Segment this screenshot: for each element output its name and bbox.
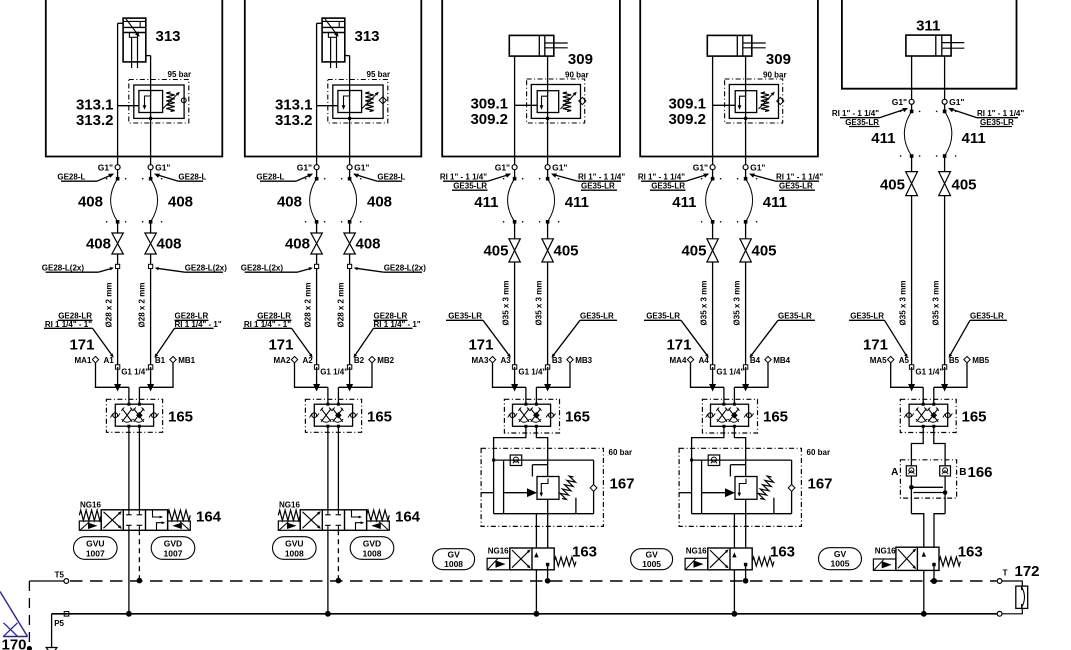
svg-text:163: 163 [770, 544, 795, 561]
fitting square right (col 1) [149, 264, 153, 268]
svg-text:165: 165 [565, 409, 590, 426]
svg-text:RI 1 1/4" - 1": RI 1 1/4" - 1" [374, 320, 421, 329]
svg-text:Ø28 x 2 mm: Ø28 x 2 mm [105, 283, 114, 328]
hose 411 left (col 3) [513, 177, 517, 181]
svg-text:GVD: GVD [363, 538, 381, 548]
tag oval GVU 1007 (col 1) [74, 537, 118, 560]
svg-text:313.1: 313.1 [76, 97, 114, 114]
svg-text:90 bar: 90 bar [763, 71, 787, 80]
svg-text:408: 408 [157, 236, 182, 253]
svg-text:60 bar: 60 bar [609, 448, 633, 457]
wire 163 to T line (col 4) [745, 566, 747, 581]
port square right (col 3) [545, 365, 549, 369]
solenoid right of 164 (col 2) [367, 521, 390, 530]
frame box column 3 [442, 0, 620, 157]
wire valve to fitting left (col 2) [316, 254, 318, 367]
svg-text:A1: A1 [104, 356, 115, 365]
wire 163 to P line col5 [923, 570, 925, 613]
svg-text:GE35-LR: GE35-LR [580, 312, 614, 321]
svg-text:RI 1" - 1 1/4": RI 1" - 1 1/4" [776, 172, 823, 181]
svg-text:GE35-LR: GE35-LR [845, 118, 879, 127]
svg-text:167: 167 [610, 476, 635, 493]
svg-text:Ø28 x 2 mm: Ø28 x 2 mm [138, 283, 147, 328]
svg-text:1005: 1005 [642, 559, 661, 569]
port square right (col 1) [148, 365, 152, 369]
pipe left (col 4) [712, 262, 714, 367]
svg-text:164: 164 [196, 509, 222, 526]
spring left of 164 (col 2) [278, 510, 300, 520]
tag oval GVD 1007 (col 1) [151, 537, 195, 560]
svg-text:B1: B1 [155, 356, 166, 365]
svg-text:171: 171 [666, 337, 691, 354]
svg-text:GVU: GVU [285, 538, 303, 548]
wire cylinder right port (col 3) [547, 56, 549, 165]
wire relief branch (col 2) [317, 105, 338, 107]
svg-text:A4: A4 [699, 356, 710, 365]
svg-text:RI 1" - 1 1/4": RI 1" - 1 1/4" [440, 172, 487, 181]
shutoff valve 405 left (col 4) [707, 239, 718, 251]
svg-text:95 bar: 95 bar [168, 70, 192, 79]
svg-text:GE28-L: GE28-L [178, 172, 206, 181]
junction dot on P line (col 1) [126, 611, 132, 617]
junction arrow right (col 3) [544, 384, 551, 392]
wire into valve 165 (col 4) [723, 387, 725, 404]
svg-text:Ø35 x 3 mm: Ø35 x 3 mm [733, 281, 742, 326]
wire 165 to valve 164 right (col 2) [337, 426, 339, 510]
cooler symbol 170 (blue) [0, 592, 28, 637]
svg-text:NG16: NG16 [488, 547, 509, 556]
wire main to junction left (col 3) [514, 367, 516, 387]
pipe left (col 3) [514, 262, 516, 367]
wire valve to fitting left (col 1) [117, 254, 119, 367]
svg-text:A3: A3 [501, 356, 512, 365]
svg-text:1008: 1008 [363, 548, 382, 558]
shutoff valve 405 left (col 3) [509, 239, 520, 251]
wire MA3 stub (col 3) [493, 363, 526, 388]
wire MA1 stub (col 1) [96, 363, 129, 388]
port G1 inch left (col 2) [314, 165, 319, 170]
directional valve 164 (col 2) [300, 510, 366, 531]
wire 163 to T line (col 3) [547, 566, 549, 581]
frame box column 5 [842, 0, 1017, 89]
svg-text:G1": G1" [495, 163, 510, 173]
svg-text:MB4: MB4 [773, 356, 790, 365]
svg-text:408: 408 [168, 194, 193, 211]
svg-text:Ø35 x 3 mm: Ø35 x 3 mm [502, 281, 511, 326]
junction arrow right col5 [941, 384, 948, 392]
junction arrow left col5 [908, 384, 915, 392]
wire MB5 stub [934, 363, 967, 388]
port G1 inch left (col 4) [710, 165, 715, 170]
junction dot on T line col5 [931, 578, 937, 584]
svg-text:408: 408 [277, 194, 302, 211]
svg-text:1008: 1008 [444, 559, 463, 569]
svg-text:408: 408 [356, 236, 381, 253]
spring of 163 (col 4) [752, 557, 774, 566]
svg-text:405: 405 [952, 177, 977, 194]
167 pilot diamond (col 3) [590, 485, 597, 492]
167 control valve square (col 4) [735, 477, 757, 500]
svg-text:GE35-LR: GE35-LR [778, 312, 812, 321]
relief valve 313.1/313.2 (col 2) [328, 80, 388, 124]
svg-text:NG16: NG16 [686, 547, 707, 556]
tag oval GVD 1008 (col 2) [350, 537, 394, 560]
wire 165 to 166 jog left [911, 426, 923, 466]
throttle check valve 165 col5 [900, 399, 956, 432]
throttle check valve 165 (col 2) [305, 399, 361, 432]
wire main to junction left (col 1) [117, 367, 119, 387]
svg-text:309.2: 309.2 [668, 111, 706, 128]
167 internal rails (col 4) [691, 460, 693, 514]
directional valve 164 (col 1) [101, 510, 167, 531]
svg-text:1008: 1008 [285, 548, 304, 558]
wire arc to valve right (col 2) [349, 222, 351, 233]
svg-text:GE35-LR: GE35-LR [581, 182, 615, 191]
svg-text:411: 411 [672, 194, 696, 211]
svg-text:B4: B4 [750, 356, 761, 365]
svg-text:RI 1" - 1 1/4": RI 1" - 1 1/4" [638, 172, 685, 181]
167 pilot arrow (col 3) [504, 492, 527, 494]
brake valve block 167 (col 3) [481, 448, 603, 526]
junction dot on P line (col 3) [534, 611, 540, 617]
T line end circle at 172 [997, 579, 1002, 584]
svg-text:MA5: MA5 [870, 356, 887, 365]
P line end circle at 172 [997, 611, 1002, 616]
port G1 inch right (col 3) [545, 165, 550, 170]
svg-text:GE35-LR: GE35-LR [779, 182, 813, 191]
wire cylinder left port (col 1) [118, 22, 124, 24]
wire arc to valve right (col 1) [150, 222, 152, 233]
port square G1 1/4 left (col 3) [512, 365, 516, 369]
svg-text:RI 1 1/4" - 1": RI 1 1/4" - 1" [175, 320, 222, 329]
throttle check valve 165 (col 1) [106, 399, 162, 432]
svg-text:MB1: MB1 [178, 356, 195, 365]
relief valve 313.1/313.2 (col 1) [129, 80, 189, 124]
wire main to junction right (col 1) [150, 367, 152, 387]
svg-text:171: 171 [69, 337, 94, 354]
wire 165 to valve 164 left (col 1) [128, 426, 130, 510]
svg-text:RI 1" - 1 1/4": RI 1" - 1 1/4" [578, 172, 625, 181]
throttle check valve 165 (col 4) [702, 399, 757, 433]
hose 408 right (col 2) [348, 177, 352, 181]
shutoff valve 408 left (col 1) [112, 233, 123, 244]
hose 408 right (col 1) [149, 177, 153, 181]
svg-text:411: 411 [962, 130, 986, 147]
svg-text:313: 313 [355, 28, 380, 45]
wire MB3 stub (col 3) [536, 363, 570, 388]
167 pilot jog (col 4) [730, 464, 745, 466]
wire into valve 165 (col 2) [327, 387, 329, 404]
port G1 inch right (col 1) [148, 165, 153, 170]
svg-text:B: B [959, 467, 966, 478]
spring of 163 (col 3) [554, 557, 576, 566]
167 pilot jog (col 3) [532, 464, 547, 466]
svg-text:164: 164 [395, 509, 421, 526]
svg-text:G1": G1" [949, 97, 964, 107]
cylinder 309 (col 4) [707, 35, 752, 56]
cylinder 311 [906, 35, 951, 56]
svg-text:405: 405 [681, 243, 706, 260]
solenoid right of 164 (col 1) [168, 521, 191, 530]
wire arc to valve right col5 [944, 156, 946, 172]
wire arc to valve left col5 [911, 156, 913, 172]
wire MB4 stub (col 4) [734, 363, 768, 388]
wire arc to valve left (col 1) [117, 222, 119, 233]
solenoid of 163 col5 [873, 559, 896, 570]
relief valve 309.1/309.2 (col 3) [527, 79, 585, 123]
wire 165 to 166 jog right [934, 426, 945, 466]
svg-text:60 bar: 60 bar [807, 448, 831, 457]
wire 167 valve down (col 4) [745, 499, 747, 548]
fitting square right (col 2) [348, 264, 352, 268]
port square G1 1/4 left (col 1) [115, 365, 119, 369]
svg-text:Ø35 x 3 mm: Ø35 x 3 mm [700, 281, 709, 326]
cylinder 313 (col 1) [123, 18, 146, 62]
svg-text:165: 165 [168, 409, 193, 426]
wire arc to valve right (col 3) [547, 222, 549, 239]
166 check valve B [940, 466, 951, 476]
svg-text:411: 411 [565, 194, 589, 211]
svg-text:GE28-L: GE28-L [256, 172, 284, 181]
wire arc to valve right (col 4) [745, 222, 747, 239]
svg-text:408: 408 [285, 236, 310, 253]
tag oval GVU 1008 (col 2) [273, 537, 317, 560]
wire into valve 165 col5 [922, 387, 924, 404]
frame box column 1 [46, 0, 223, 157]
svg-text:GE28-L: GE28-L [377, 172, 405, 181]
svg-text:Ø28 x 2 mm: Ø28 x 2 mm [304, 283, 313, 328]
junction dot on T line (col 4) [743, 578, 749, 584]
svg-text:163: 163 [572, 544, 597, 561]
wire 165 to 167 jog right (col 3) [536, 426, 547, 476]
svg-text:167: 167 [808, 476, 833, 493]
svg-text:RI 1 1/4" - 1": RI 1 1/4" - 1" [244, 320, 291, 329]
wire 165 to 167 jog right (col 4) [734, 426, 745, 476]
shutoff valve 408 right (col 1) [145, 233, 156, 244]
svg-text:A5: A5 [899, 356, 910, 365]
spring right of 164 (col 1) [168, 510, 191, 520]
pipe left col5 [911, 196, 913, 367]
wire arc to valve left (col 3) [514, 222, 516, 239]
junction dot on T line (col 1) [137, 578, 143, 584]
svg-text:GE28-L(2x): GE28-L(2x) [241, 263, 284, 272]
svg-text:171: 171 [863, 337, 888, 354]
svg-text:G1": G1" [892, 97, 907, 107]
167 internal rails (col 3) [493, 460, 495, 514]
wire 165 to valve 164 left (col 2) [327, 426, 329, 510]
166 cross connection [910, 476, 912, 514]
svg-text:405: 405 [554, 243, 579, 260]
wire valve to fitting right (col 1) [150, 254, 152, 367]
hose 411 right (col 4) [744, 177, 748, 181]
svg-text:405: 405 [752, 243, 777, 260]
wire cylinder right port [944, 56, 946, 100]
port G1 inch right (col 4) [743, 165, 748, 170]
svg-text:408: 408 [78, 194, 103, 211]
167 control valve square (col 3) [537, 477, 559, 500]
svg-text:NG16: NG16 [279, 501, 300, 510]
wire cylinder right port (col 4) [745, 56, 747, 165]
svg-text:172: 172 [1015, 563, 1040, 580]
drain symbol [46, 648, 57, 650]
solenoid valve 163 (col 3) [510, 548, 554, 570]
svg-text:MB5: MB5 [972, 356, 989, 365]
frame box column 2 [245, 0, 421, 157]
P pressure line [52, 613, 998, 615]
svg-text:309.1: 309.1 [470, 96, 508, 113]
svg-text:G1 1/4": G1 1/4" [915, 368, 943, 377]
svg-text:MA4: MA4 [670, 356, 687, 365]
svg-text:411: 411 [871, 130, 895, 147]
hose 411 right col5 [943, 110, 947, 114]
svg-text:1007: 1007 [164, 548, 183, 558]
shutoff valve 405 right (col 4) [740, 239, 751, 251]
wire main to junction left col5 [911, 367, 913, 387]
svg-text:G1 1/4": G1 1/4" [121, 368, 149, 377]
svg-text:GE35-LR: GE35-LR [453, 182, 487, 191]
junction dot on T line (col 3) [545, 578, 551, 584]
wire cylinder right port (col 2) [345, 55, 350, 57]
hose 408 left (col 1) [116, 177, 120, 181]
shutoff valve 405 left col5 [906, 172, 918, 184]
167 pilot diamond (col 4) [788, 485, 795, 492]
svg-text:MA2: MA2 [274, 356, 291, 365]
fitting square left (col 2) [315, 264, 319, 268]
vertical dashed branch lower left [28, 581, 30, 646]
svg-text:MA3: MA3 [472, 356, 489, 365]
svg-text:GE35-LR: GE35-LR [646, 312, 680, 321]
svg-text:1007: 1007 [86, 548, 105, 558]
junction dot on P line (col 4) [732, 611, 738, 617]
svg-text:NG16: NG16 [80, 501, 101, 510]
svg-text:B5: B5 [949, 356, 960, 365]
wire 166 to 163 jog right [934, 514, 945, 548]
svg-text:B2: B2 [354, 356, 365, 365]
spring of 163 col5 [939, 557, 960, 566]
port G1 inch right col5 [942, 99, 947, 104]
junction arrow left (col 3) [511, 384, 518, 392]
wire 166 to 163 jog left [911, 514, 923, 548]
svg-text:T5: T5 [55, 571, 65, 580]
svg-text:RI 1" - 1 1/4": RI 1" - 1 1/4" [977, 109, 1024, 118]
svg-text:165: 165 [763, 409, 788, 426]
svg-text:170: 170 [2, 637, 27, 650]
port square right col5 [942, 365, 946, 369]
shutoff valve 405 right col5 [939, 172, 951, 184]
junction arrow left (col 4) [709, 384, 716, 392]
svg-text:MB2: MB2 [377, 356, 394, 365]
port G1 inch left (col 3) [512, 165, 517, 170]
svg-text:GE35-LR: GE35-LR [448, 312, 482, 321]
167 pilot arrow (col 4) [702, 492, 725, 494]
port G1 inch left (col 1) [115, 165, 120, 170]
svg-text:309.2: 309.2 [470, 111, 508, 128]
svg-text:G1 1/4": G1 1/4" [716, 368, 744, 377]
port square right (col 4) [743, 365, 747, 369]
wire 164 to P line (col 2) [327, 530, 329, 614]
wire main to junction right (col 3) [547, 367, 549, 387]
T return line dashed [70, 580, 997, 582]
svg-text:P5: P5 [54, 619, 64, 628]
junction arrow right (col 2) [346, 384, 353, 392]
solenoid valve 163 col5 [896, 547, 939, 570]
brake valve block 167 (col 4) [679, 448, 801, 526]
cylinder 313 (col 2) [322, 18, 345, 62]
wire into valve 165 (col 1) [128, 387, 130, 404]
spring left of 164 (col 1) [79, 510, 101, 520]
cylinder 309 (col 3) [509, 35, 554, 56]
svg-text:MB3: MB3 [575, 356, 592, 365]
svg-text:GE35-LR: GE35-LR [980, 118, 1014, 127]
svg-text:313.2: 313.2 [76, 112, 114, 129]
svg-text:171: 171 [268, 337, 293, 354]
port square G1 1/4 left col5 [909, 365, 913, 369]
svg-text:G1": G1" [354, 163, 369, 173]
wire 167 bottom rail down (col 3) [535, 514, 537, 548]
relief valve 309.1/309.2 (col 4) [725, 79, 783, 123]
svg-text:171: 171 [468, 337, 493, 354]
svg-text:G1": G1" [750, 163, 765, 173]
svg-text:165: 165 [962, 409, 987, 426]
port square G1 1/4 left (col 2) [314, 365, 318, 369]
svg-text:GE28-L(2x): GE28-L(2x) [384, 263, 427, 272]
svg-text:Ø35 x 3 mm: Ø35 x 3 mm [535, 281, 544, 326]
wire MA2 stub (col 2) [295, 363, 328, 388]
wire cylinder left port (col 3) [514, 56, 516, 165]
junction arrow left (col 1) [114, 384, 121, 392]
tag oval GV 1005 col5 [819, 548, 862, 570]
port G1 inch right (col 2) [347, 165, 352, 170]
svg-text:411: 411 [763, 194, 787, 211]
fitting square left (col 1) [116, 264, 120, 268]
svg-text:B3: B3 [552, 356, 563, 365]
wire 165 to 167 jog left (col 3) [494, 426, 526, 460]
wire arc to valve left (col 2) [316, 222, 318, 233]
svg-text:RI 1 1/4" - 1": RI 1 1/4" - 1" [45, 320, 92, 329]
hose 411 left col5 [910, 110, 914, 114]
svg-text:A: A [891, 467, 898, 478]
pipe right col5 [944, 196, 946, 367]
wire main to junction right (col 4) [745, 367, 747, 387]
svg-text:GE35-LR: GE35-LR [970, 312, 1004, 321]
svg-text:G1": G1" [297, 163, 312, 173]
spring right of 164 (col 2) [367, 510, 390, 520]
solenoid left of 164 (col 2) [278, 521, 300, 530]
svg-text:166: 166 [968, 464, 993, 481]
svg-text:313.1: 313.1 [275, 97, 313, 114]
junction arrow right (col 1) [147, 384, 154, 392]
P line drain corner [51, 614, 53, 648]
wire 165 to valve 164 right (col 1) [138, 426, 140, 510]
svg-text:309: 309 [568, 51, 593, 68]
wire main to junction left (col 4) [712, 367, 714, 387]
frame box column 4 [640, 0, 818, 157]
svg-text:GE35-LR: GE35-LR [850, 312, 884, 321]
svg-text:GVD: GVD [164, 538, 182, 548]
hose 411 left (col 4) [711, 177, 715, 181]
svg-text:313: 313 [156, 28, 181, 45]
throttle check valve 165 (col 3) [504, 399, 559, 433]
shutoff valve 405 right (col 3) [542, 239, 553, 251]
svg-text:NG16: NG16 [875, 547, 896, 556]
167 spring (col 3) [560, 476, 576, 499]
svg-text:GE28-L: GE28-L [57, 172, 85, 181]
wire relief branch (col 4) [713, 104, 736, 106]
svg-text:G1 1/4": G1 1/4" [320, 368, 348, 377]
wire cylinder right port (col 1) [146, 55, 151, 57]
port square right (col 2) [347, 365, 351, 369]
wire MA4 stub (col 4) [691, 363, 724, 388]
